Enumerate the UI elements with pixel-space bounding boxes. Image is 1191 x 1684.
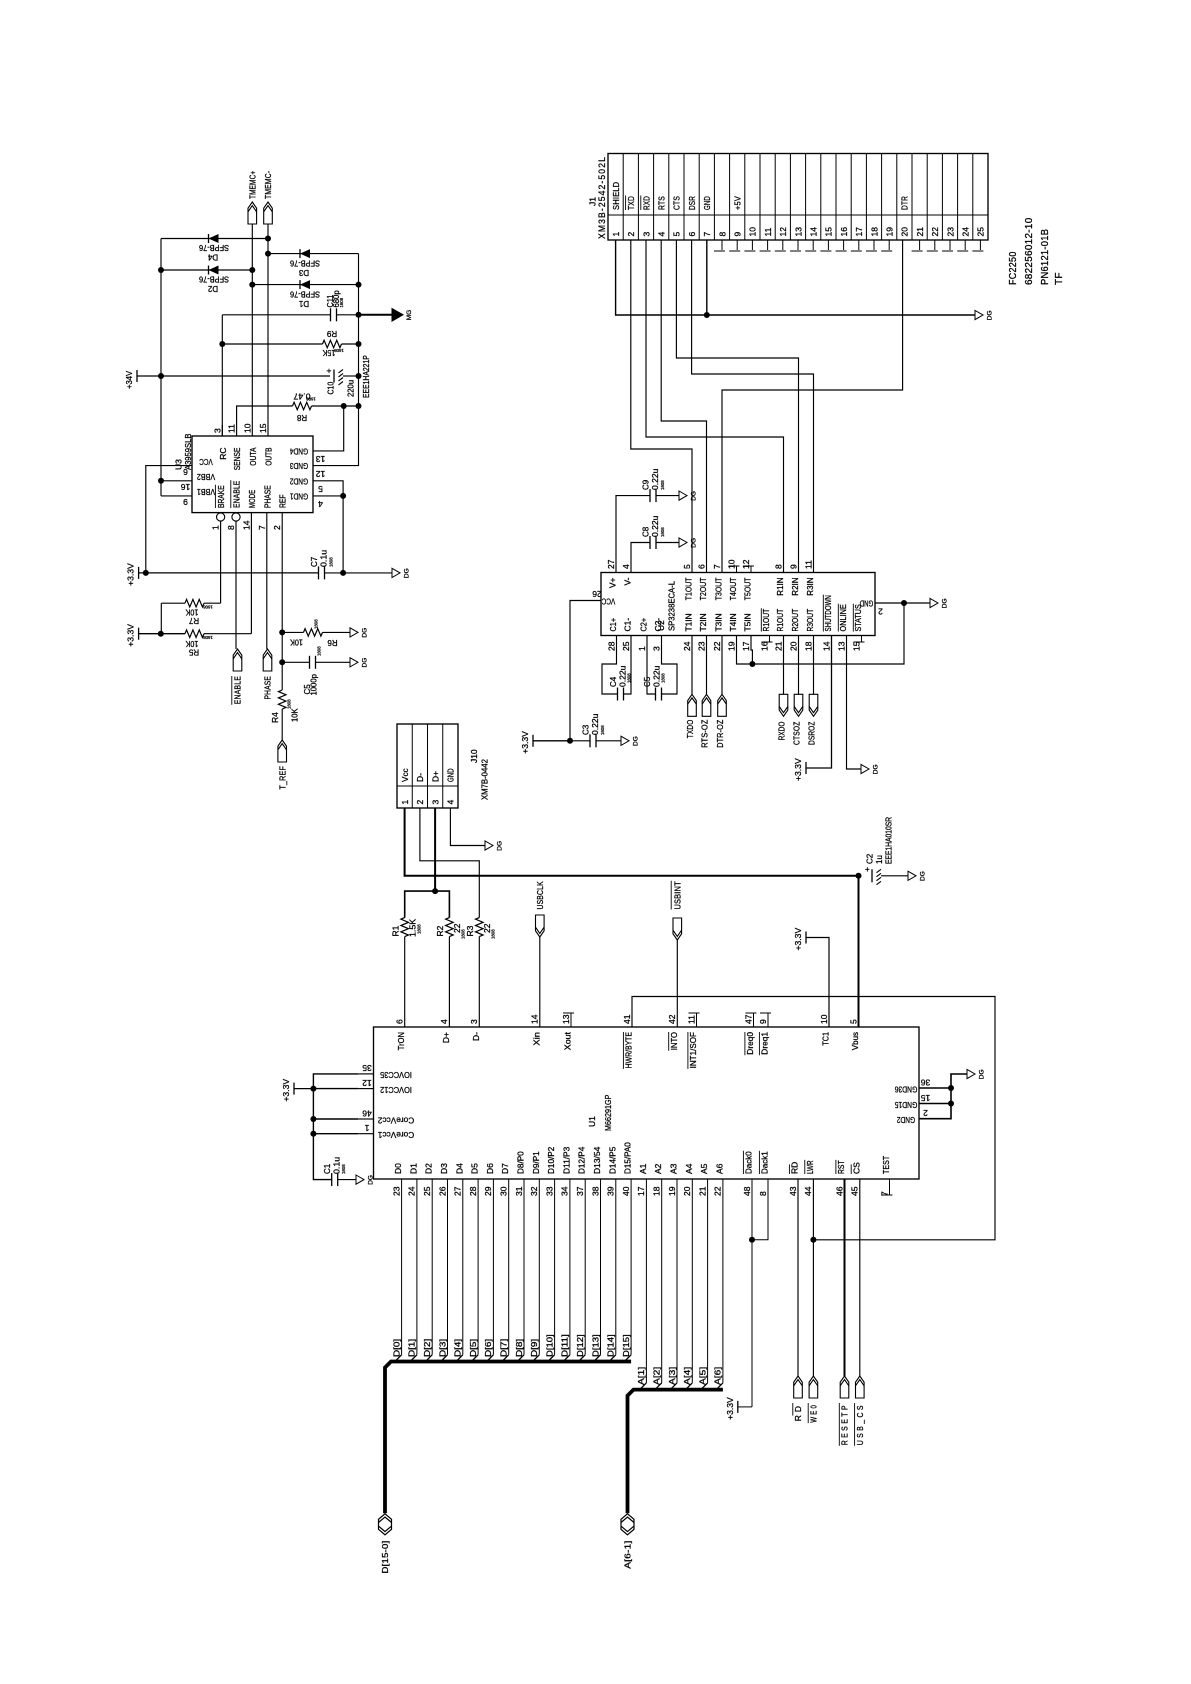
wire J1 CTS to R2IN [676,240,798,573]
svg-text:+: + [327,366,332,376]
svg-text:INT1/SOF: INT1/SOF [688,1032,698,1068]
ground DG [930,598,938,607]
wire D bus tap [492,1179,494,1355]
svg-text:9: 9 [758,1019,768,1024]
wire A bus tap [722,1179,724,1383]
svg-text:DG: DG [987,310,994,320]
svg-text:CTS: CTS [672,196,682,210]
wire D bus tap [615,1179,617,1355]
svg-text:PHASE: PHASE [262,485,272,508]
wire R3 to D- pin [478,937,480,1027]
connector TXDO [691,636,693,695]
svg-text:A[3]: A[3] [667,1367,677,1385]
diode D1 SFPB-76 [252,284,358,286]
svg-text:MODE: MODE [247,490,257,508]
svg-text:3: 3 [651,646,661,651]
wire CS [859,1179,861,1376]
svg-text:DG: DG [404,568,411,578]
diode D4 SFPB-76 [161,238,268,240]
svg-text:15: 15 [824,227,834,237]
capacitor C5 1000p [282,661,309,663]
resistor R7 10K [185,599,204,607]
svg-text:36: 36 [921,1077,931,1087]
svg-text:R1OUT: R1OUT [775,609,785,632]
junction D+ node [432,888,438,894]
svg-text:C4: C4 [609,676,618,687]
connector RXDO [783,636,785,695]
svg-text:EEE1HA221P: EEE1HA221P [362,355,371,398]
svg-text:A4: A4 [684,1163,694,1174]
wire +34V rail [160,239,162,496]
wire R7 [161,602,185,604]
svg-text:EEE1HA010SR: EEE1HA010SR [885,817,894,864]
svg-text:+3.3V: +3.3V [126,624,136,647]
svg-text:D2: D2 [424,1163,434,1174]
ground DG [975,310,983,319]
wire VBB1 to +34V rail [161,495,192,497]
svg-text:2: 2 [415,800,425,805]
diode D2 SFPB-76 [161,269,252,271]
resistor R1 1.5K [401,918,409,937]
resistor R4 10K [278,690,286,709]
svg-text:46: 46 [362,1108,372,1118]
connector DSROZ [813,636,815,695]
svg-text:D+: D+ [430,771,440,782]
junction RC/R9 [219,341,225,347]
IC U2 SP3238ECA-L RS232 transceiver [601,573,875,636]
svg-text:RC: RC [218,448,228,460]
wire Vbus net [405,808,859,876]
svg-text:44: 44 [803,1186,813,1196]
capacitor C1 0.1u [331,1173,333,1186]
svg-text:DG: DG [942,598,949,608]
svg-text:4: 4 [621,564,631,569]
svg-text:D7: D7 [500,1163,510,1174]
wire GND3 to MG rail [313,465,359,467]
svg-text:1608: 1608 [341,1164,346,1174]
svg-text:GND36: GND36 [894,1084,917,1094]
svg-text:A3959SLB: A3959SLB [183,433,193,470]
svg-text:SFPB-76: SFPB-76 [199,274,229,283]
connector RD [794,1376,803,1398]
svg-text:D-: D- [471,1032,481,1041]
svg-text:38: 38 [590,1186,600,1196]
power +3.3V [138,628,140,640]
svg-text:1608: 1608 [203,635,213,640]
capacitor C7 0.1u [318,566,320,579]
svg-text:0.22u: 0.22u [651,516,660,537]
junction R8/GND4 [341,403,347,409]
svg-text:C3: C3 [582,724,591,735]
svg-text:R1IN: R1IN [775,578,785,596]
ground DG [392,568,400,577]
svg-text:RTS-OZ: RTS-OZ [699,720,709,748]
svg-text:BRAKE: BRAKE [216,485,226,508]
svg-text:6: 6 [687,232,697,237]
svg-text:1608: 1608 [203,604,213,609]
svg-text:10: 10 [726,559,736,569]
wire D bus tap [431,1179,433,1355]
power +3.3V [805,932,807,944]
junction +34V/D2 [158,267,164,273]
svg-text:T2IN: T2IN [698,613,708,631]
svg-text:D15/PA0: D15/PA0 [623,1142,633,1174]
wire HWR/BYTE loop [632,997,995,1240]
svg-text:8: 8 [717,232,727,237]
svg-text:19: 19 [726,641,736,651]
svg-text:D4: D4 [207,252,218,261]
svg-text:15: 15 [851,641,861,651]
svg-text:26: 26 [592,589,602,599]
junction MG rail/R9 [356,341,362,347]
connector J10 XM7B-0442 [397,724,458,808]
svg-text:DTR: DTR [900,196,910,210]
svg-text:A3: A3 [669,1163,679,1174]
wire ONLINE to DG [847,636,862,770]
svg-text:8: 8 [758,1191,768,1196]
svg-text:C9: C9 [642,479,651,490]
IC U1 M66291GP USB controller [374,1027,920,1179]
svg-text:24: 24 [961,227,971,237]
svg-text:XM3B-2542-502L: XM3B-2542-502L [597,156,607,239]
svg-text:A6: A6 [714,1163,724,1174]
svg-text:D[7]: D[7] [499,1339,509,1357]
wire GND4 to R8 node [313,406,344,451]
wire VCC to +3.3V [533,740,570,742]
svg-text:23: 23 [391,1186,401,1196]
power +3.3V [532,735,534,747]
svg-text:30: 30 [499,1186,509,1196]
svg-text:45: 45 [850,1186,860,1196]
svg-text:D5: D5 [470,1163,480,1174]
svg-text:D8/P0: D8/P0 [516,1151,526,1174]
svg-text:D3: D3 [298,268,309,277]
svg-text:13: 13 [793,227,803,237]
wire J1 SHIELD/GND to DG [616,240,975,315]
svg-text:SHIELD: SHIELD [611,182,621,210]
svg-text:6: 6 [183,467,188,477]
svg-text:GND3: GND3 [290,461,308,471]
svg-text:27: 27 [606,559,616,569]
svg-text:1608: 1608 [600,725,605,735]
diode D3 SFPB-76 [268,253,359,255]
svg-text:GND: GND [702,196,712,210]
svg-text:D[11]: D[11] [560,1334,570,1357]
svg-text:3: 3 [430,800,440,805]
svg-text:R1OUT: R1OUT [761,609,771,632]
svg-text:DSROZ: DSROZ [806,722,816,746]
svg-text:RXDO: RXDO [776,721,786,740]
svg-text:OUTB: OUTB [264,447,274,465]
wire TC1 to +3.3V [806,938,829,1028]
wire D bus tap [630,1179,632,1355]
svg-text:10: 10 [748,227,758,237]
svg-text:18: 18 [869,227,879,237]
svg-text:1u: 1u [875,855,884,864]
svg-text:37: 37 [575,1186,585,1196]
svg-text:19: 19 [667,1186,677,1196]
connector USBINT [673,918,682,940]
svg-text:GND2: GND2 [897,1115,915,1125]
ground DG [621,736,629,745]
svg-text:D[0]: D[0] [391,1339,401,1357]
junction MG rail/D1 [356,282,362,288]
svg-text:GND: GND [860,598,874,608]
wire D bus tap [401,1179,403,1355]
svg-text:VBB1: VBB1 [197,487,215,497]
wire D bus tap [462,1179,464,1355]
connector TMEMC- [264,202,273,224]
wire T4IN/T5IN to GND [737,603,905,664]
svg-text:A5: A5 [699,1163,709,1174]
svg-text:PN6121-01B: PN6121-01B [1040,229,1051,285]
svg-text:31: 31 [514,1186,524,1196]
svg-text:D[8]: D[8] [514,1339,524,1357]
svg-text:23: 23 [696,641,706,651]
svg-text:Dreq1: Dreq1 [760,1032,770,1055]
svg-text:D1: D1 [408,1163,418,1174]
svg-text:D[15-0]: D[15-0] [380,1541,390,1574]
connector RTS-OZ [706,636,708,695]
svg-text:0.22u: 0.22u [591,714,600,735]
power +3.3V [293,1083,295,1095]
wire R4 to T_REF [281,709,283,740]
svg-text:11: 11 [227,424,237,433]
svg-text:RST: RST [836,1160,846,1174]
svg-text:17: 17 [636,1186,646,1196]
svg-text:7: 7 [257,525,267,530]
svg-text:1608: 1608 [314,619,319,629]
svg-text:U3: U3 [174,459,184,470]
wire J1 RXD to R1IN [646,240,784,573]
connector WE0 [809,1376,818,1398]
bus connector D[15-0] [379,1514,392,1535]
svg-text:DG: DG [362,628,369,638]
svg-text:1608: 1608 [306,396,316,401]
svg-text:39: 39 [606,1186,616,1196]
svg-text:16: 16 [839,227,849,237]
svg-text:SHUTDOWN: SHUTDOWN [823,595,833,631]
svg-text:RTS: RTS [657,196,667,210]
svg-text:R2: R2 [435,925,445,936]
svg-text:DG: DG [497,841,504,851]
svg-text:18: 18 [803,641,813,651]
svg-text:29: 29 [483,1186,493,1196]
svg-text:FC2250: FC2250 [1008,251,1019,285]
wire RC to R9 [221,315,223,436]
svg-text:C8: C8 [642,526,651,537]
svg-text:T5IN: T5IN [743,613,753,631]
svg-text:1: 1 [364,1123,369,1133]
svg-text:Xout: Xout [563,1031,573,1050]
junction CoreVcc2 [310,1116,316,1122]
svg-text:RESETP: RESETP [840,1403,850,1445]
svg-text:DTR-OZ: DTR-OZ [715,720,725,748]
svg-text:17: 17 [854,227,864,237]
svg-text:R7: R7 [188,616,199,625]
svg-text:D[12]: D[12] [575,1334,585,1357]
wire J10 GND to DG [450,808,485,846]
wire D bus tap [538,1179,540,1355]
svg-text:12: 12 [316,469,326,479]
svg-text:2: 2 [923,1108,928,1118]
svg-text:34: 34 [560,1186,570,1196]
svg-text:TC1: TC1 [821,1032,831,1046]
svg-text:U1: U1 [587,1116,597,1127]
svg-text:GND4: GND4 [290,446,308,456]
wire R2 to D+ pin [448,937,450,1027]
junction IOVCC12 [310,1086,316,1092]
svg-text:8: 8 [226,525,236,530]
svg-text:5: 5 [682,564,692,569]
wire D bus tap [416,1179,418,1355]
wire J1 RTS to T2OUT [661,240,706,573]
svg-text:24: 24 [407,1186,417,1196]
svg-text:V+: V+ [608,577,618,588]
junction REF/R6 [279,629,285,635]
wire J1 DTR to T3OUT [722,240,903,573]
svg-text:D6: D6 [485,1163,495,1174]
svg-text:5: 5 [672,232,682,237]
svg-text:220u: 220u [347,380,356,397]
junction OUTA/D2 [249,267,255,273]
wire A bus tap [691,1179,693,1383]
svg-text:D[2]: D[2] [422,1339,432,1357]
svg-text:D11/P3: D11/P3 [561,1146,571,1174]
svg-text:TF: TF [1054,272,1065,285]
power +3.3V [805,762,807,774]
wire A bus tap [661,1179,663,1383]
svg-text:R2OUT: R2OUT [790,609,800,632]
svg-text:M66291GP: M66291GP [603,1094,613,1131]
wire D bus tap [508,1179,510,1355]
svg-text:16: 16 [759,641,769,651]
svg-text:WE0: WE0 [809,1403,819,1423]
svg-text:HWR/BYTE: HWR/BYTE [624,1032,634,1069]
ground DG [485,841,493,850]
svg-text:9: 9 [183,497,188,507]
svg-text:43: 43 [788,1186,798,1196]
svg-text:ONLINE: ONLINE [838,604,848,632]
svg-text:1000p: 1000p [310,674,319,696]
junction VBB2/+34V [158,478,164,484]
svg-text:D0: D0 [393,1163,403,1174]
svg-text:GND2: GND2 [290,476,308,486]
svg-text:XM7B-0442: XM7B-0442 [480,759,490,800]
svg-text:9: 9 [788,564,798,569]
svg-text:13: 13 [561,1014,571,1024]
svg-text:6: 6 [696,564,706,569]
wire J1 DSR to R3IN [692,240,814,573]
svg-text:TMEMC+: TMEMC+ [248,171,258,199]
svg-text:D[1]: D[1] [407,1339,417,1357]
svg-text:T5OUT: T5OUT [743,578,753,601]
svg-text:10K: 10K [185,607,198,616]
svg-text:2: 2 [626,232,636,237]
wire +34V feed [137,375,330,377]
svg-text:R1: R1 [391,925,401,936]
wire J1 TXD to T1OUT [631,240,692,573]
svg-text:T_REF: T_REF [277,766,287,790]
svg-text:11: 11 [763,227,773,236]
svg-text:1: 1 [637,646,647,651]
svg-text:13: 13 [836,641,846,651]
svg-text:A[6-1]: A[6-1] [623,1541,633,1569]
svg-text:GND1: GND1 [290,491,308,501]
svg-text:RD: RD [793,1403,803,1421]
resistor R6 10K [304,629,323,637]
svg-text:+3.3V: +3.3V [793,758,803,781]
capacitor C9 0.22u [616,496,650,573]
svg-text:1: 1 [211,525,221,530]
wire A bus tap [676,1179,678,1383]
svg-text:26: 26 [437,1186,447,1196]
svg-text:IOVCC12: IOVCC12 [380,1085,412,1095]
wire VCC to +3.3V [146,466,192,573]
svg-text:17: 17 [741,641,751,651]
svg-text:PHASE: PHASE [263,676,273,700]
svg-text:D13/54: D13/54 [592,1146,602,1174]
svg-text:V-: V- [623,577,633,585]
junction CoreVcc1 [310,1131,316,1137]
svg-text:A[6]: A[6] [713,1367,723,1385]
svg-text:20: 20 [900,227,910,237]
ground DG [679,538,687,547]
svg-text:DG: DG [368,1175,375,1185]
ground DG [350,628,358,637]
svg-text:18: 18 [652,1186,662,1196]
svg-text:TXDO: TXDO [685,719,695,738]
svg-text:D3: D3 [439,1163,449,1174]
svg-text:22: 22 [712,641,722,651]
svg-text:14: 14 [809,227,819,237]
svg-text:SENSE: SENSE [232,447,242,470]
power +34V [136,370,138,382]
svg-text:R3IN: R3IN [805,578,815,596]
svg-text:USBCLK: USBCLK [535,881,545,909]
wire MG rail [358,254,360,466]
svg-text:RD: RD [790,1162,800,1174]
svg-text:D[6]: D[6] [483,1339,493,1357]
junction Dack0/Dack1 [749,1237,755,1243]
svg-text:DG: DG [979,1069,986,1079]
wire D- to R3 [420,808,479,918]
ground MG [392,309,403,322]
svg-text:4: 4 [446,800,456,805]
svg-text:1608: 1608 [627,673,632,683]
svg-text:J1: J1 [588,197,598,206]
svg-text:C1-: C1- [623,618,633,632]
svg-text:2: 2 [272,525,282,530]
wire OUTB to TMEMC- [267,224,269,436]
wire A bus tap [645,1179,647,1383]
svg-text:D9/P1: D9/P1 [531,1151,541,1174]
svg-text:9: 9 [733,232,743,237]
svg-text:7: 7 [712,564,722,569]
svg-text:D-: D- [415,773,425,782]
wire +3.3V to R5 [139,633,185,635]
junction VCC/+3.3V [143,570,149,576]
svg-text:D+: D+ [441,1032,451,1043]
svg-text:+3.3V: +3.3V [793,927,803,950]
capacitor C3 0.22u [570,740,590,742]
svg-text:Dack0: Dack0 [744,1151,754,1174]
ground DG [908,871,916,880]
junction GND/DG [901,600,907,606]
junction R7/+3.3V [158,631,164,637]
svg-text:25: 25 [976,227,986,237]
svg-text:4: 4 [657,232,667,237]
